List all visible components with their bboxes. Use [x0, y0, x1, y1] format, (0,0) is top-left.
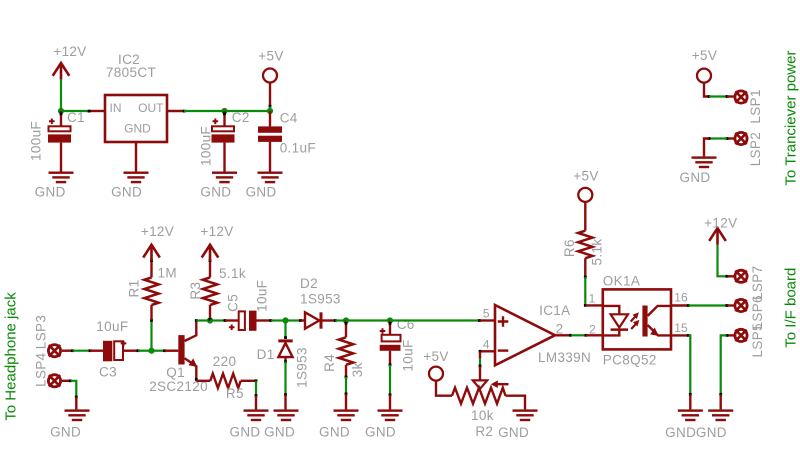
svg-text:10uF: 10uF — [96, 319, 128, 334]
svg-text:+5V: +5V — [258, 49, 283, 64]
svg-text:IN: IN — [110, 101, 122, 115]
svg-text:220: 220 — [213, 354, 237, 369]
trimmer R2 10k — [452, 366, 525, 439]
svg-text:LSP4: LSP4 — [34, 352, 49, 387]
ground (C4) — [246, 172, 283, 200]
svg-text:16: 16 — [674, 291, 688, 305]
wire — [61, 110, 90, 112]
svg-text:GND: GND — [200, 185, 231, 200]
diode D1 1S953 — [257, 341, 310, 388]
svg-text:To Tranciever power: To Tranciever power — [783, 51, 800, 186]
wire — [255, 379, 258, 409]
node: C2 junction — [221, 108, 227, 114]
svg-text:5: 5 — [483, 306, 490, 320]
wire pin16 — [671, 304, 734, 307]
svg-text:C4: C4 — [280, 111, 298, 126]
wire LSP4 to ground — [62, 379, 78, 409]
svg-text:R6: R6 — [562, 239, 577, 257]
supply +12V (regulator input) — [53, 44, 87, 80]
node: regulator input junction — [58, 108, 64, 114]
svg-text:C3: C3 — [99, 365, 117, 380]
svg-text:10k: 10k — [471, 408, 494, 423]
svg-text:GND: GND — [50, 425, 81, 440]
svg-text:R3: R3 — [188, 282, 203, 300]
svg-text:PC8Q52: PC8Q52 — [603, 353, 657, 368]
svg-text:GND: GND — [229, 425, 260, 440]
svg-text:GND: GND — [319, 425, 350, 440]
transistor Q1 2SC2120 — [149, 319, 208, 394]
svg-text:R5: R5 — [226, 386, 244, 401]
solder pad LSP5 — [735, 323, 765, 357]
resistor R4 3k — [322, 321, 365, 379]
wire — [436, 381, 452, 396]
diode D2 1S953 — [300, 276, 341, 329]
ground (IC2) — [111, 172, 148, 200]
svg-text:D2: D2 — [300, 276, 318, 291]
resistor R6 5.1k — [562, 202, 605, 279]
capacitor C6 10uF — [380, 317, 416, 371]
wire — [196, 319, 210, 321]
wire — [286, 319, 302, 322]
solder pad LSP3 — [34, 315, 61, 357]
supply +5V (regulator output) — [258, 49, 283, 83]
wire — [719, 334, 734, 409]
wire — [704, 137, 734, 156]
svg-text:1S953: 1S953 — [300, 292, 341, 307]
svg-text:LSP3: LSP3 — [34, 315, 49, 349]
solder pad LSP4 — [34, 352, 61, 387]
svg-text:IC1A: IC1A — [539, 303, 570, 318]
svg-text:LSP7: LSP7 — [750, 266, 765, 300]
wire — [718, 245, 735, 278]
capacitor C1 100uF — [29, 110, 85, 172]
capacitor C4 0.1uF — [258, 111, 316, 172]
svg-text:D1: D1 — [257, 347, 275, 362]
svg-text:R4: R4 — [322, 354, 337, 372]
supply +5V (to tranciever) — [692, 48, 717, 83]
wire — [346, 319, 390, 321]
solder pad LSP6 — [735, 295, 765, 329]
voltage regulator IC2 7805CT — [105, 52, 167, 142]
wire — [345, 377, 348, 409]
svg-text:4: 4 — [483, 338, 490, 352]
svg-text:GND: GND — [679, 170, 710, 185]
svg-text:+5V: +5V — [692, 48, 717, 63]
svg-text:+12V: +12V — [53, 44, 86, 59]
svg-text:0.1uF: 0.1uF — [280, 141, 316, 156]
capacitor C2 100uF — [199, 110, 250, 172]
svg-text:10uF: 10uF — [255, 280, 270, 312]
wire R5 — [196, 380, 210, 382]
node: R4 junction — [343, 317, 349, 323]
ground (C6) — [365, 409, 403, 439]
svg-text:+12V: +12V — [141, 224, 174, 239]
svg-text:GND: GND — [124, 122, 151, 136]
svg-text:Q1: Q1 — [166, 365, 185, 380]
ground (LSP5) — [696, 409, 733, 439]
solder pad LSP7 — [735, 266, 765, 300]
ground (C2) — [200, 172, 237, 200]
ground (D1) — [264, 409, 298, 439]
ground (LSP4) — [50, 409, 89, 439]
wire — [555, 334, 603, 337]
svg-text:To Headphone jack: To Headphone jack — [3, 292, 20, 421]
svg-text:C2: C2 — [232, 110, 250, 125]
svg-text:R2: R2 — [475, 424, 493, 439]
svg-text:GND: GND — [696, 425, 727, 440]
solder pad LSP2 — [735, 132, 763, 166]
wire — [335, 319, 346, 321]
svg-text:GND: GND — [365, 425, 396, 440]
svg-text:GND: GND — [111, 185, 142, 200]
resistor R5 220 — [210, 354, 256, 401]
wire — [137, 349, 152, 352]
resistor R3 5.1k — [188, 259, 246, 321]
wire — [150, 319, 153, 351]
svg-text:LSP2: LSP2 — [748, 132, 763, 166]
supply +5V (R6) — [573, 169, 598, 202]
svg-text:+5V: +5V — [423, 349, 448, 364]
svg-text:100uF: 100uF — [199, 126, 214, 166]
svg-text:GND: GND — [35, 185, 66, 200]
svg-text:2: 2 — [589, 322, 596, 336]
wire — [271, 319, 286, 321]
supply +12V (R1) — [141, 224, 174, 261]
capacitor C5 10uF — [225, 280, 272, 331]
svg-text:+5V: +5V — [573, 169, 598, 184]
svg-text:R1: R1 — [127, 280, 142, 298]
svg-text:GND: GND — [498, 425, 529, 440]
svg-text:GND: GND — [264, 425, 295, 440]
svg-text:C5: C5 — [226, 294, 241, 312]
wire — [60, 79, 62, 111]
svg-text:LSP1: LSP1 — [748, 89, 763, 123]
wire — [584, 277, 603, 307]
node: Q1 base junction — [148, 348, 154, 354]
resistor R1 1M — [127, 259, 177, 320]
svg-text:OUT: OUT — [138, 101, 164, 115]
svg-text:5.1k: 5.1k — [590, 239, 605, 266]
wire — [152, 349, 179, 352]
wire — [479, 351, 482, 367]
supply +12V (R3) — [200, 224, 233, 261]
svg-text:1S953: 1S953 — [295, 347, 310, 388]
svg-text:GND: GND — [246, 185, 277, 200]
ground (R4) — [319, 409, 359, 439]
wire — [284, 360, 287, 409]
node: collector junction — [207, 317, 213, 323]
node: detector junction — [282, 317, 288, 323]
wire — [269, 82, 272, 111]
svg-text:100uF: 100uF — [29, 121, 44, 161]
svg-text:5.1k: 5.1k — [219, 266, 246, 281]
svg-text:LM339N: LM339N — [538, 350, 591, 365]
ground (R2) — [498, 409, 537, 439]
ground (LSP2) — [679, 156, 716, 184]
svg-text:15: 15 — [674, 321, 688, 335]
wire — [284, 321, 287, 340]
svg-text:+12V: +12V — [704, 216, 737, 231]
svg-text:1: 1 — [589, 292, 596, 306]
svg-text:To I/F board: To I/F board — [783, 268, 800, 348]
optocoupler OK1A PC8Q52 — [589, 273, 688, 367]
svg-text:C1: C1 — [67, 110, 85, 125]
svg-text:7805CT: 7805CT — [106, 65, 156, 80]
svg-text:LSP5: LSP5 — [750, 323, 765, 357]
IC2 pin GND — [135, 142, 137, 172]
light arrows — [631, 312, 640, 329]
wire — [390, 319, 481, 322]
supply +12V (I/F) — [704, 216, 737, 245]
svg-text:1M: 1M — [158, 265, 177, 280]
node: C4 junction — [267, 108, 273, 114]
wire — [184, 110, 270, 112]
wire — [210, 319, 226, 322]
IC2 pin IN — [88, 110, 105, 113]
wire — [704, 83, 734, 98]
wire — [62, 349, 103, 352]
node: C6 junction — [387, 317, 393, 323]
svg-text:10uF: 10uF — [401, 339, 416, 371]
capacitor C3 10uF — [96, 319, 138, 380]
ground (opto emitter) — [665, 409, 703, 439]
svg-text:+12V: +12V — [200, 224, 233, 239]
svg-text:3k: 3k — [350, 362, 365, 377]
svg-text:GND: GND — [665, 425, 696, 440]
solder pad LSP1 — [735, 89, 763, 123]
phototransistor inside OK1A — [642, 306, 670, 337]
ground (R5) — [229, 409, 268, 439]
IC2 pin OUT — [167, 110, 186, 113]
wire — [389, 365, 392, 410]
wire pin15 — [671, 334, 692, 409]
op-amp IC1A LM339N — [479, 303, 592, 365]
svg-text:OK1A: OK1A — [603, 273, 640, 288]
LED inside OK1A — [604, 306, 628, 336]
ground (C1) — [35, 172, 74, 200]
supply +5V (R2) — [423, 349, 448, 381]
